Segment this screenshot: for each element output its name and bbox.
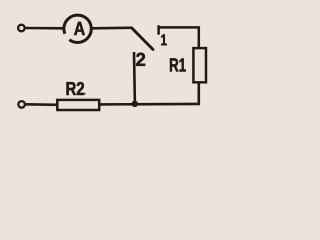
wire ammeter to switch pivot bbox=[92, 26, 132, 29]
ammeter U1 circle (with small scan gap at lower-left) bbox=[64, 15, 91, 42]
wire R2 to bottom-right corner bbox=[100, 103, 199, 106]
terminal bottom-left bbox=[18, 101, 25, 108]
wire contact 1 to R1 top bbox=[157, 27, 198, 47]
wire terminal to R2 bbox=[26, 103, 57, 106]
label R2 bbox=[67, 82, 85, 95]
switch S1 blade bbox=[132, 28, 153, 50]
resistor R2 body bbox=[57, 100, 99, 110]
switch contact 1 tick bbox=[157, 26, 160, 33]
label R1 bbox=[170, 58, 186, 71]
ammeter label A bbox=[74, 22, 85, 35]
wire R1 bottom to bottom rail bbox=[198, 83, 201, 104]
resistor R1 body bbox=[193, 48, 206, 82]
terminal top-left bbox=[18, 25, 25, 32]
speckle after R2 label bbox=[84, 93, 86, 95]
label 2 bbox=[136, 53, 145, 66]
wire terminal to ammeter bbox=[26, 27, 64, 30]
wire junction to switch contact 2 bbox=[133, 52, 136, 104]
label 1 bbox=[161, 34, 166, 45]
junction node bbox=[132, 101, 138, 107]
